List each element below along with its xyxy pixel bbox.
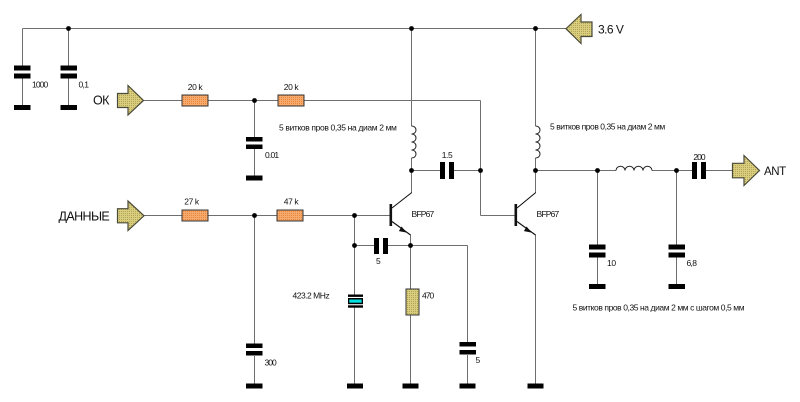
svg-text:423.2 MHz: 423.2 MHz <box>293 291 330 301</box>
svg-text:20 k: 20 k <box>284 82 300 92</box>
svg-text:5: 5 <box>376 256 381 266</box>
svg-text:ОК: ОК <box>93 94 110 108</box>
svg-text:300: 300 <box>265 358 277 368</box>
svg-text:BFP67: BFP67 <box>537 209 560 219</box>
svg-text:20 k: 20 k <box>188 82 204 92</box>
svg-text:ANT: ANT <box>764 166 786 178</box>
svg-text:6,8: 6,8 <box>687 258 698 268</box>
svg-text:5 витков пров 0,35 на диам 2 м: 5 витков пров 0,35 на диам 2 мм <box>279 123 397 133</box>
svg-text:5 витков пров 0,35 на диам 2 м: 5 витков пров 0,35 на диам 2 мм <box>550 122 665 132</box>
svg-text:3.6 V: 3.6 V <box>598 23 624 37</box>
svg-text:0,1: 0,1 <box>79 80 90 90</box>
svg-text:27 k: 27 k <box>184 197 200 207</box>
svg-text:0.01: 0.01 <box>265 150 279 160</box>
svg-text:10: 10 <box>607 258 616 268</box>
svg-text:1000: 1000 <box>32 80 48 90</box>
svg-text:200: 200 <box>693 152 705 162</box>
svg-text:5 витков пров 0,35 на диам 2 м: 5 витков пров 0,35 на диам 2 мм с шагом … <box>573 303 745 313</box>
svg-text:BFP67: BFP67 <box>412 209 435 219</box>
svg-text:5: 5 <box>476 355 481 365</box>
svg-text:ДАННЫЕ: ДАННЫЕ <box>59 210 110 224</box>
svg-text:470: 470 <box>422 291 434 301</box>
svg-text:47 k: 47 k <box>284 197 300 207</box>
svg-text:1.5: 1.5 <box>442 150 453 160</box>
